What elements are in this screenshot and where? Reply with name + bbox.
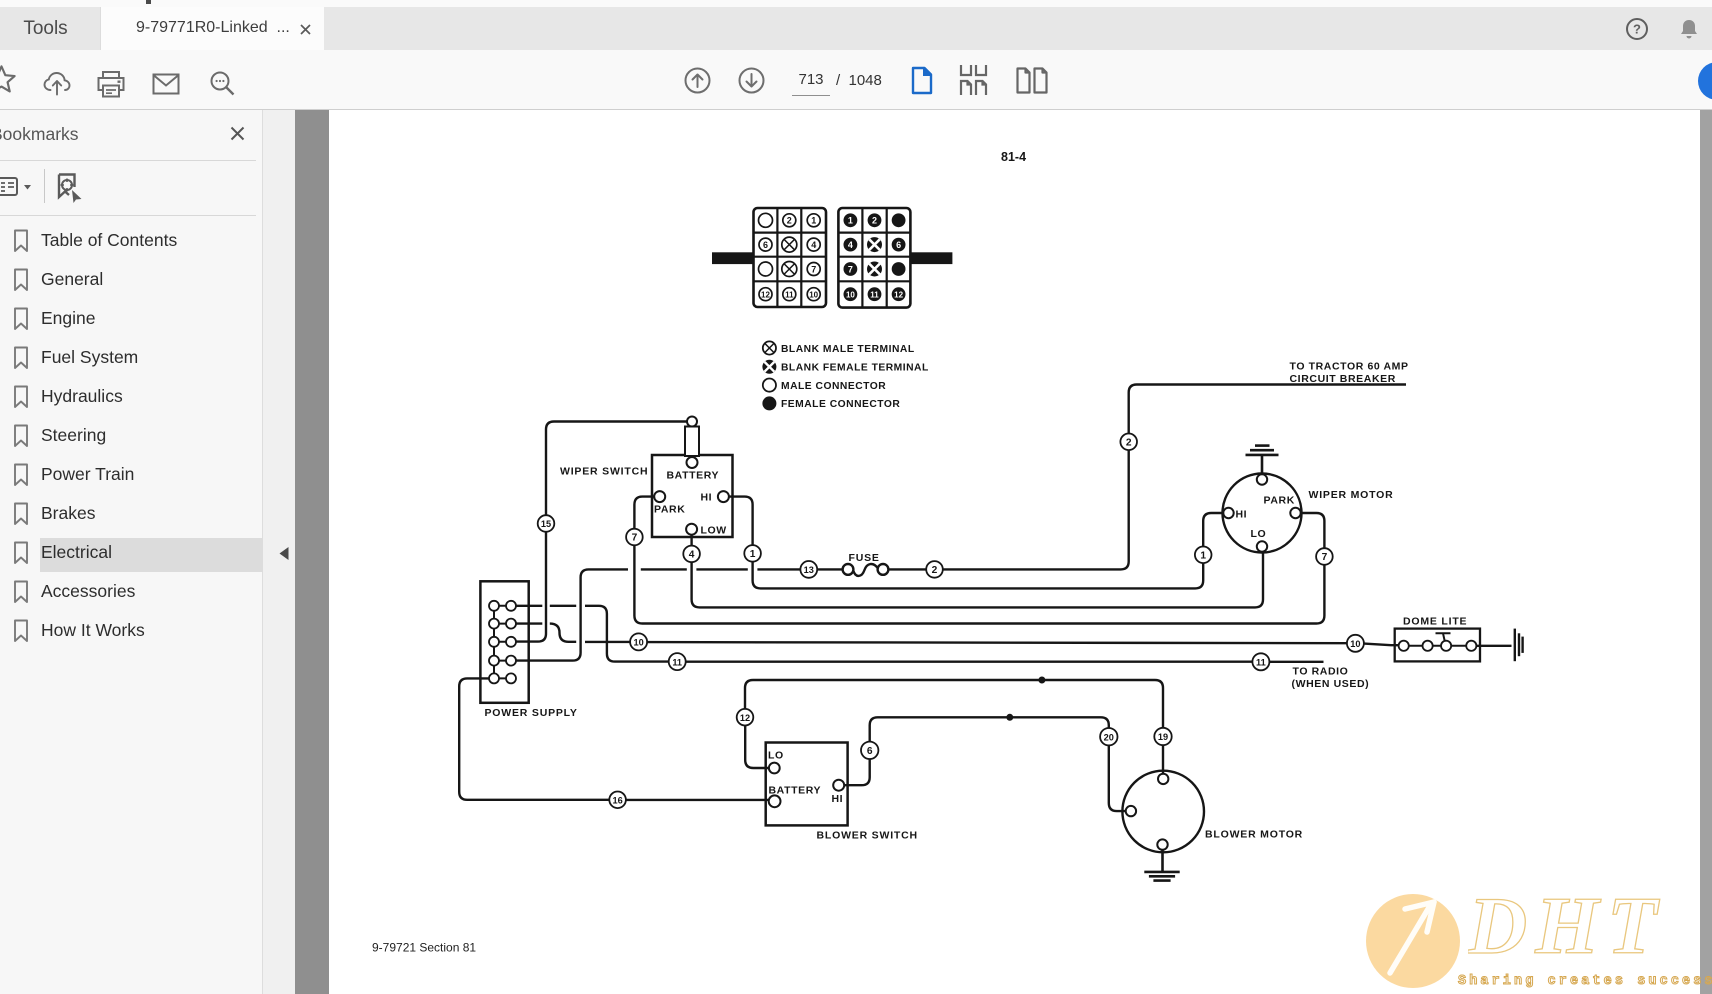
svg-text:10: 10 bbox=[809, 291, 818, 300]
battery connector on top of wiper switch bbox=[685, 417, 699, 469]
bell icon bbox=[1677, 17, 1701, 41]
ground right of dome lite bbox=[1515, 629, 1523, 662]
star icon (cut at left) bbox=[0, 64, 17, 95]
svg-text:BATTERY: BATTERY bbox=[667, 470, 720, 482]
blower switch terminal BATTERY bbox=[769, 795, 781, 807]
svg-text:(WHEN USED): (WHEN USED) bbox=[1292, 678, 1370, 690]
options icon (cut) bbox=[0, 177, 36, 197]
svg-text:4: 4 bbox=[848, 240, 853, 250]
dome lite switch symbol bbox=[1436, 633, 1451, 640]
wire label circle 2 (fuse end) bbox=[926, 561, 943, 578]
wire label circle 6 bbox=[861, 742, 878, 759]
svg-text:6: 6 bbox=[867, 746, 873, 757]
svg-text:POWER SUPPLY: POWER SUPPLY bbox=[485, 707, 578, 719]
wire label circle 1 (motor end) bbox=[1195, 547, 1212, 564]
wire label circle 11 (left) bbox=[669, 653, 686, 670]
svg-text:19: 19 bbox=[1158, 732, 1168, 742]
wire 16: power supply row5 to blower switch battery bbox=[459, 678, 609, 799]
svg-text:HI: HI bbox=[1236, 508, 1248, 520]
svg-text:DOME LITE: DOME LITE bbox=[1403, 616, 1467, 628]
svg-text:81-4: 81-4 bbox=[1001, 150, 1026, 164]
legend blank female terminal bbox=[762, 360, 928, 374]
electrical highlight bbox=[40, 538, 265, 572]
svg-text:BLANK MALE TERMINAL: BLANK MALE TERMINAL bbox=[781, 344, 915, 355]
svg-text:6: 6 bbox=[763, 240, 768, 250]
wire 10: power supply row2 to dome lite bbox=[516, 624, 576, 642]
svg-text:7: 7 bbox=[848, 264, 853, 274]
bookmark-search icon bbox=[57, 173, 85, 204]
search-zoom icon bbox=[208, 70, 236, 98]
svg-text:9-79721 Section 81: 9-79721 Section 81 bbox=[372, 941, 476, 955]
blower motor terminals bbox=[1126, 774, 1169, 850]
right harness bar bbox=[910, 252, 952, 264]
svg-text:10: 10 bbox=[633, 638, 643, 648]
svg-text:WIPER SWITCH: WIPER SWITCH bbox=[560, 466, 648, 478]
wire label circle 4 bbox=[683, 546, 700, 563]
power supply box bbox=[480, 581, 528, 703]
wire label circle 19 bbox=[1154, 728, 1171, 745]
power supply bus bbox=[493, 606, 495, 679]
svg-text:WIPER MOTOR: WIPER MOTOR bbox=[1309, 489, 1394, 501]
sidebar bbox=[0, 110, 263, 994]
help icon bbox=[1625, 17, 1649, 41]
svg-text:LO: LO bbox=[768, 750, 784, 762]
svg-text:10: 10 bbox=[1350, 639, 1360, 649]
svg-text:TO TRACTOR 60 AMP: TO TRACTOR 60 AMP bbox=[1290, 361, 1409, 373]
wire label circle 13 bbox=[800, 561, 817, 578]
svg-text:2: 2 bbox=[1126, 438, 1132, 449]
wiper motor bbox=[1223, 474, 1302, 553]
svg-text:12: 12 bbox=[894, 291, 903, 300]
wire label circle 10 (left) bbox=[630, 633, 647, 650]
svg-text:12: 12 bbox=[740, 713, 750, 723]
svg-text:PARK: PARK bbox=[654, 504, 685, 516]
legend male connector bbox=[763, 379, 886, 392]
power supply pins bbox=[489, 601, 516, 684]
svg-text:2: 2 bbox=[872, 216, 877, 226]
wire label circle 20 bbox=[1100, 728, 1117, 745]
pdf dark background strip bbox=[295, 110, 329, 994]
svg-text:1: 1 bbox=[750, 549, 756, 560]
svg-text:PARK: PARK bbox=[1264, 495, 1295, 507]
toolbar bbox=[0, 50, 1712, 111]
fuse line: power supply row4 to circuit breaker bbox=[517, 569, 629, 660]
blower switch terminal HI bbox=[833, 780, 844, 791]
cloud upload icon bbox=[42, 69, 72, 99]
wiper switch terminal LOW bbox=[686, 524, 697, 535]
svg-text:7: 7 bbox=[1322, 552, 1328, 563]
svg-text:7: 7 bbox=[811, 264, 816, 274]
wiper switch box bbox=[652, 455, 733, 537]
ground below blower motor bbox=[1144, 850, 1179, 881]
junction dot on 12-19 wire bbox=[1038, 677, 1045, 684]
scrollbar bbox=[1700, 110, 1712, 994]
wiper switch terminal HI bbox=[718, 491, 729, 502]
svg-text:11: 11 bbox=[870, 291, 879, 300]
svg-text:MALE CONNECTOR: MALE CONNECTOR bbox=[781, 381, 886, 392]
svg-text:13: 13 bbox=[804, 565, 814, 575]
svg-text:CIRCUIT BREAKER: CIRCUIT BREAKER bbox=[1290, 373, 1396, 385]
WATERMARK bbox=[1366, 894, 1460, 988]
legend blank male terminal bbox=[763, 341, 915, 354]
female connector pins bbox=[844, 213, 906, 301]
blower switch terminal LO bbox=[769, 763, 780, 774]
fuse bbox=[843, 552, 889, 576]
svg-text:LO: LO bbox=[1251, 528, 1267, 540]
svg-text:10: 10 bbox=[846, 291, 855, 300]
wire 7: wiper switch PARK to wiper motor PARK bbox=[634, 497, 654, 529]
connector block female (right) bbox=[838, 208, 910, 308]
svg-text:HI: HI bbox=[701, 492, 713, 504]
wire label circle 10 (right) bbox=[1347, 635, 1364, 652]
printer icon bbox=[96, 70, 126, 99]
ground above wiper motor bbox=[1246, 446, 1279, 475]
page up circle bbox=[684, 67, 711, 94]
svg-text:11: 11 bbox=[785, 291, 794, 300]
svg-text:4: 4 bbox=[689, 550, 695, 561]
svg-text:4: 4 bbox=[811, 240, 816, 250]
white page bbox=[329, 110, 1700, 994]
svg-text:HI: HI bbox=[832, 793, 844, 805]
svg-text:BATTERY: BATTERY bbox=[769, 785, 822, 797]
wire label circle 15 bbox=[538, 515, 555, 532]
single page icon blue bbox=[911, 66, 933, 95]
dome lite contacts bbox=[1399, 641, 1477, 651]
blue profile circle right edge bbox=[1698, 62, 1712, 100]
wire 2 to circuit breaker bbox=[943, 450, 1129, 569]
svg-text:BLOWER MOTOR: BLOWER MOTOR bbox=[1205, 829, 1303, 841]
two page view icon bbox=[1016, 67, 1048, 94]
svg-text:TO RADIO: TO RADIO bbox=[1293, 666, 1349, 678]
envelope icon bbox=[152, 73, 180, 95]
gutter + collapse arrow bbox=[263, 110, 295, 994]
junction dot on 6-20 wire bbox=[1006, 714, 1013, 721]
svg-text:20: 20 bbox=[1104, 732, 1114, 742]
blower switch box bbox=[766, 743, 848, 826]
wire label circle 1 (switch end) bbox=[744, 545, 761, 562]
scrolling view icon bbox=[959, 65, 991, 96]
svg-text:7: 7 bbox=[632, 533, 638, 544]
wire 6/20: blower switch HI to blower motor left bbox=[844, 759, 870, 785]
svg-text:2: 2 bbox=[787, 216, 792, 226]
connector block male (left) bbox=[754, 208, 827, 307]
top strip bbox=[0, 0, 1712, 7]
svg-text:BLOWER SWITCH: BLOWER SWITCH bbox=[817, 830, 918, 842]
svg-text:LOW: LOW bbox=[701, 525, 727, 537]
wiper motor terminals bbox=[1223, 474, 1300, 551]
blower motor bbox=[1122, 771, 1204, 853]
wire label circle 11 (right) bbox=[1252, 653, 1269, 670]
dome lite to ground wire bbox=[1476, 645, 1511, 647]
legend female connector bbox=[762, 396, 900, 410]
wire 12/19: blower switch LO to blower motor top bbox=[745, 726, 769, 769]
svg-text:1: 1 bbox=[1200, 551, 1206, 562]
wire label circle 16 bbox=[609, 792, 626, 809]
svg-text:1: 1 bbox=[811, 216, 816, 226]
svg-text:12: 12 bbox=[761, 291, 770, 300]
bookmark items bbox=[0, 0, 1712, 1]
svg-text:15: 15 bbox=[541, 519, 551, 529]
svg-text:1: 1 bbox=[848, 216, 853, 226]
wire label circle 2 (breaker end) bbox=[1120, 434, 1137, 451]
svg-text:2: 2 bbox=[932, 565, 938, 576]
page down circle bbox=[738, 67, 765, 94]
svg-text:11: 11 bbox=[1256, 658, 1266, 668]
svg-text:FUSE: FUSE bbox=[849, 552, 880, 564]
wire label circle 7 (motor end) bbox=[1316, 548, 1333, 565]
wire 1: wiper switch HI to wiper motor HI bbox=[729, 497, 753, 545]
svg-text:BLANK FEMALE TERMINAL: BLANK FEMALE TERMINAL bbox=[781, 363, 929, 374]
wire 15: power supply row3 to wiper switch battery bbox=[546, 422, 687, 516]
svg-text:11: 11 bbox=[672, 657, 682, 667]
svg-text:FEMALE CONNECTOR: FEMALE CONNECTOR bbox=[781, 399, 900, 410]
wiper switch terminal PARK bbox=[654, 491, 665, 502]
wire 4: wiper switch LOW to wiper motor LO bbox=[690, 535, 692, 546]
wire label circle 12 bbox=[737, 709, 754, 726]
wire 11: power supply row1 to radio bbox=[516, 606, 669, 662]
wire label circle 7 (switch end) bbox=[626, 529, 643, 546]
dome lite box bbox=[1395, 629, 1480, 662]
left harness bar bbox=[712, 252, 754, 264]
male connector pins bbox=[759, 213, 821, 300]
svg-text:6: 6 bbox=[896, 240, 901, 250]
tab bar bbox=[0, 7, 1712, 50]
svg-text:16: 16 bbox=[612, 796, 622, 806]
